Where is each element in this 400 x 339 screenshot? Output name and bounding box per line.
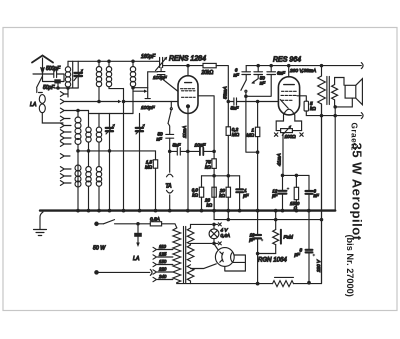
mains plug top bbox=[95, 222, 98, 225]
transformer taps bbox=[153, 247, 173, 281]
svg-text:160pF: 160pF bbox=[141, 54, 156, 60]
svg-text:kΩ: kΩ bbox=[192, 193, 198, 198]
antenna switch bbox=[37, 76, 43, 93]
wire arrow to 100pF bbox=[133, 90, 145, 92]
svg-text:4 V: 4 V bbox=[221, 228, 229, 233]
fuse 0,8A bbox=[138, 223, 150, 225]
connector TA bbox=[167, 151, 173, 210]
svg-text:RGN 1064: RGN 1064 bbox=[258, 257, 287, 264]
capacitor 100pF coupling bbox=[157, 68, 177, 92]
capacitor 6nF a bbox=[245, 66, 247, 72]
svg-text:110: 110 bbox=[159, 244, 167, 249]
coil RF 1 bbox=[96, 61, 101, 101]
svg-text:μF: μF bbox=[248, 237, 254, 242]
mains switch bbox=[104, 220, 139, 224]
filament terminal marks bbox=[274, 133, 277, 136]
resistor 75kOhm bbox=[212, 159, 216, 169]
tube RENS1284 bbox=[178, 76, 198, 114]
wire mid horizontal bbox=[90, 113, 134, 115]
output transformer secondary bbox=[332, 85, 338, 100]
wire cathode 41mA bbox=[282, 133, 284, 176]
wire oscillator node bbox=[133, 72, 158, 88]
secondary winding heater top bbox=[187, 228, 194, 244]
svg-text:125: 125 bbox=[159, 252, 167, 257]
power transformer core bbox=[184, 227, 186, 284]
svg-text:5nF: 5nF bbox=[173, 143, 182, 148]
svg-text:MΩ: MΩ bbox=[232, 132, 240, 137]
rectifier wiring bbox=[225, 255, 246, 271]
coil band 2b bbox=[96, 114, 101, 167]
svg-text:RENS 1284: RENS 1284 bbox=[169, 56, 206, 63]
switch tone bbox=[241, 80, 246, 90]
coil tuning main bbox=[75, 111, 81, 211]
rectifier tube RGN1064 bbox=[215, 248, 234, 267]
connector speaker bottom bbox=[361, 113, 363, 119]
svg-text:kΩ: kΩ bbox=[219, 193, 225, 198]
heater rail bbox=[214, 219, 321, 221]
variable capacitor VC1 bbox=[106, 114, 115, 211]
power transformer primary bbox=[173, 228, 181, 283]
svg-text:nF: nF bbox=[314, 193, 319, 198]
svg-text:LA: LA bbox=[133, 256, 140, 262]
wire antenna to input caps bbox=[33, 73, 64, 82]
svg-text:260 V,38mA: 260 V,38mA bbox=[289, 68, 316, 74]
wire grid RES964 bbox=[258, 101, 279, 103]
svg-text:kΩ: kΩ bbox=[310, 106, 316, 111]
output transformer primary bbox=[321, 66, 323, 76]
resistor 6kOhm bbox=[201, 176, 203, 211]
capacitor 100pF grid bbox=[145, 88, 150, 102]
antenna bbox=[32, 56, 53, 74]
coil band 2a bbox=[86, 111, 91, 167]
svg-text:5nF: 5nF bbox=[231, 106, 240, 111]
capacitor 1uF bbox=[239, 176, 241, 189]
wire plate to 75k line bbox=[198, 96, 214, 159]
ground symbol bbox=[40, 212, 43, 229]
title Graetz 35 W Aeropilot bbox=[345, 123, 365, 297]
svg-text:53mA: 53mA bbox=[223, 86, 229, 99]
wire bbox=[54, 61, 78, 88]
svg-text:220: 220 bbox=[158, 267, 167, 272]
tube RES964 bbox=[278, 77, 299, 115]
coil RF 2 bbox=[106, 61, 123, 88]
wire to 53mA drop bbox=[216, 66, 228, 127]
capacitor 500pF bbox=[54, 71, 57, 78]
coil lower 3a bbox=[75, 151, 81, 187]
svg-text:μF: μF bbox=[271, 193, 277, 198]
svg-text:10μF: 10μF bbox=[195, 143, 207, 149]
capacitor 5nF AF bbox=[177, 148, 180, 155]
wire tone switch line bbox=[246, 92, 258, 152]
secondary winding HT bbox=[187, 245, 194, 261]
B+ bus top bbox=[246, 65, 361, 67]
variable capacitor VC2 bbox=[136, 114, 145, 211]
svg-text:500pF: 500pF bbox=[46, 66, 61, 72]
resistor 5kOhm bbox=[297, 96, 306, 101]
connector speaker top bbox=[361, 63, 363, 69]
capacitor 5nF screen bbox=[228, 101, 257, 103]
capacitor 12uF bbox=[282, 175, 284, 190]
capacitor 6nF output bbox=[308, 175, 310, 190]
resistor 1MOhm bbox=[257, 102, 259, 128]
svg-text:LA: LA bbox=[30, 102, 37, 108]
capacitor 10uF bbox=[200, 148, 203, 155]
capacitor 18uF bbox=[257, 211, 259, 254]
svg-text:MΩ: MΩ bbox=[247, 133, 255, 138]
svg-text:kΩ: kΩ bbox=[205, 165, 211, 170]
wire cathode 11mA bbox=[187, 108, 189, 211]
wire band select bbox=[66, 110, 89, 112]
junction dots top rail bbox=[98, 60, 100, 62]
svg-text:kΩ: kΩ bbox=[207, 202, 213, 207]
wire top-left rail bbox=[68, 60, 157, 62]
svg-text:240: 240 bbox=[158, 274, 167, 279]
bus junction dots bbox=[77, 209, 310, 212]
potentiometer 100 Ohm bbox=[281, 129, 293, 133]
ground bus bbox=[40, 209, 335, 211]
svg-text:0,6A: 0,6A bbox=[221, 233, 230, 238]
svg-text:11mA: 11mA bbox=[182, 126, 188, 138]
wire bus drop 12uF bbox=[275, 211, 277, 220]
svg-text:MΩ: MΩ bbox=[145, 164, 153, 169]
capacitor 50nF TA bbox=[166, 134, 174, 138]
svg-text:6nF: 6nF bbox=[277, 71, 286, 76]
svg-text:8: 8 bbox=[300, 248, 303, 253]
svg-text:100Ω: 100Ω bbox=[285, 134, 297, 139]
secondary winding heater bottom bbox=[187, 265, 194, 281]
output transformer core bbox=[327, 77, 329, 105]
resistor divider bottom bbox=[273, 281, 294, 287]
wire AVC horizontal bbox=[78, 150, 156, 152]
resistor 1500 Ohm bbox=[295, 175, 297, 187]
band switch contacts bbox=[60, 92, 71, 186]
coil RF 3 bbox=[130, 61, 135, 91]
resistor 20kOhm anode bbox=[203, 63, 216, 67]
switch TA/radio on grid line bbox=[170, 102, 172, 108]
resistor 25kOhm bbox=[212, 187, 216, 197]
svg-text:100pF: 100pF bbox=[153, 75, 168, 81]
svg-text:Feld: Feld bbox=[284, 235, 294, 241]
svg-text:TA: TA bbox=[166, 184, 173, 190]
wire rail to 20k bbox=[165, 65, 203, 67]
coil antenna primary bbox=[65, 61, 70, 97]
wire bias rail bbox=[202, 175, 240, 177]
svg-text:RES 964: RES 964 bbox=[273, 57, 301, 64]
svg-text:0,8A: 0,8A bbox=[150, 217, 160, 223]
dial lamp 4V 0,6A bbox=[209, 229, 219, 239]
wire bus to heater rail bbox=[213, 211, 215, 220]
bottom HT rail bbox=[177, 104, 322, 284]
wire grid line bbox=[66, 101, 119, 103]
svg-text:μF: μF bbox=[242, 193, 248, 198]
wire tube top cap bbox=[187, 66, 189, 76]
svg-text:150: 150 bbox=[159, 259, 167, 264]
capacitor 6nF b bbox=[270, 66, 272, 72]
svg-text:35 W Aeropilot: 35 W Aeropilot bbox=[350, 143, 365, 241]
svg-text:(bis Nr. 27000): (bis Nr. 27000) bbox=[345, 235, 355, 297]
capacitor + lamp LA bbox=[137, 224, 139, 233]
junction cathode line bbox=[169, 150, 171, 152]
coil lower 3b bbox=[86, 167, 91, 211]
svg-text:41mA: 41mA bbox=[277, 153, 283, 166]
resistor 0,2MOhm bbox=[226, 127, 230, 136]
capacitor 8uF bbox=[306, 250, 313, 253]
wire plate RES bbox=[288, 66, 290, 77]
speaker bbox=[345, 85, 356, 98]
capacitor 50pF bbox=[54, 79, 61, 83]
heater rail riser bbox=[283, 174, 310, 176]
field coil Feld bbox=[275, 220, 277, 230]
svg-text:220 V: 220 V bbox=[316, 259, 321, 273]
wire AF line bbox=[170, 150, 214, 152]
resistor 20kOhm screen bbox=[226, 187, 230, 197]
svg-text:100pF: 100pF bbox=[141, 105, 156, 111]
trimmer capacitor antenna bbox=[74, 61, 83, 88]
filament legs RES964 bbox=[276, 115, 301, 131]
svg-text:20kΩ: 20kΩ bbox=[201, 70, 214, 76]
wire vertical to bus bbox=[123, 89, 125, 211]
coil lower 3c bbox=[96, 167, 101, 211]
svg-text:50 W: 50 W bbox=[93, 246, 106, 252]
mains plug bottom bbox=[95, 271, 98, 274]
resistor 1,5MOhm bbox=[155, 151, 157, 160]
capacitor 50nF tone bbox=[257, 66, 259, 72]
coil LA (loop antenna) bbox=[39, 93, 64, 124]
capacitor 160pF trimmer bbox=[156, 57, 168, 71]
